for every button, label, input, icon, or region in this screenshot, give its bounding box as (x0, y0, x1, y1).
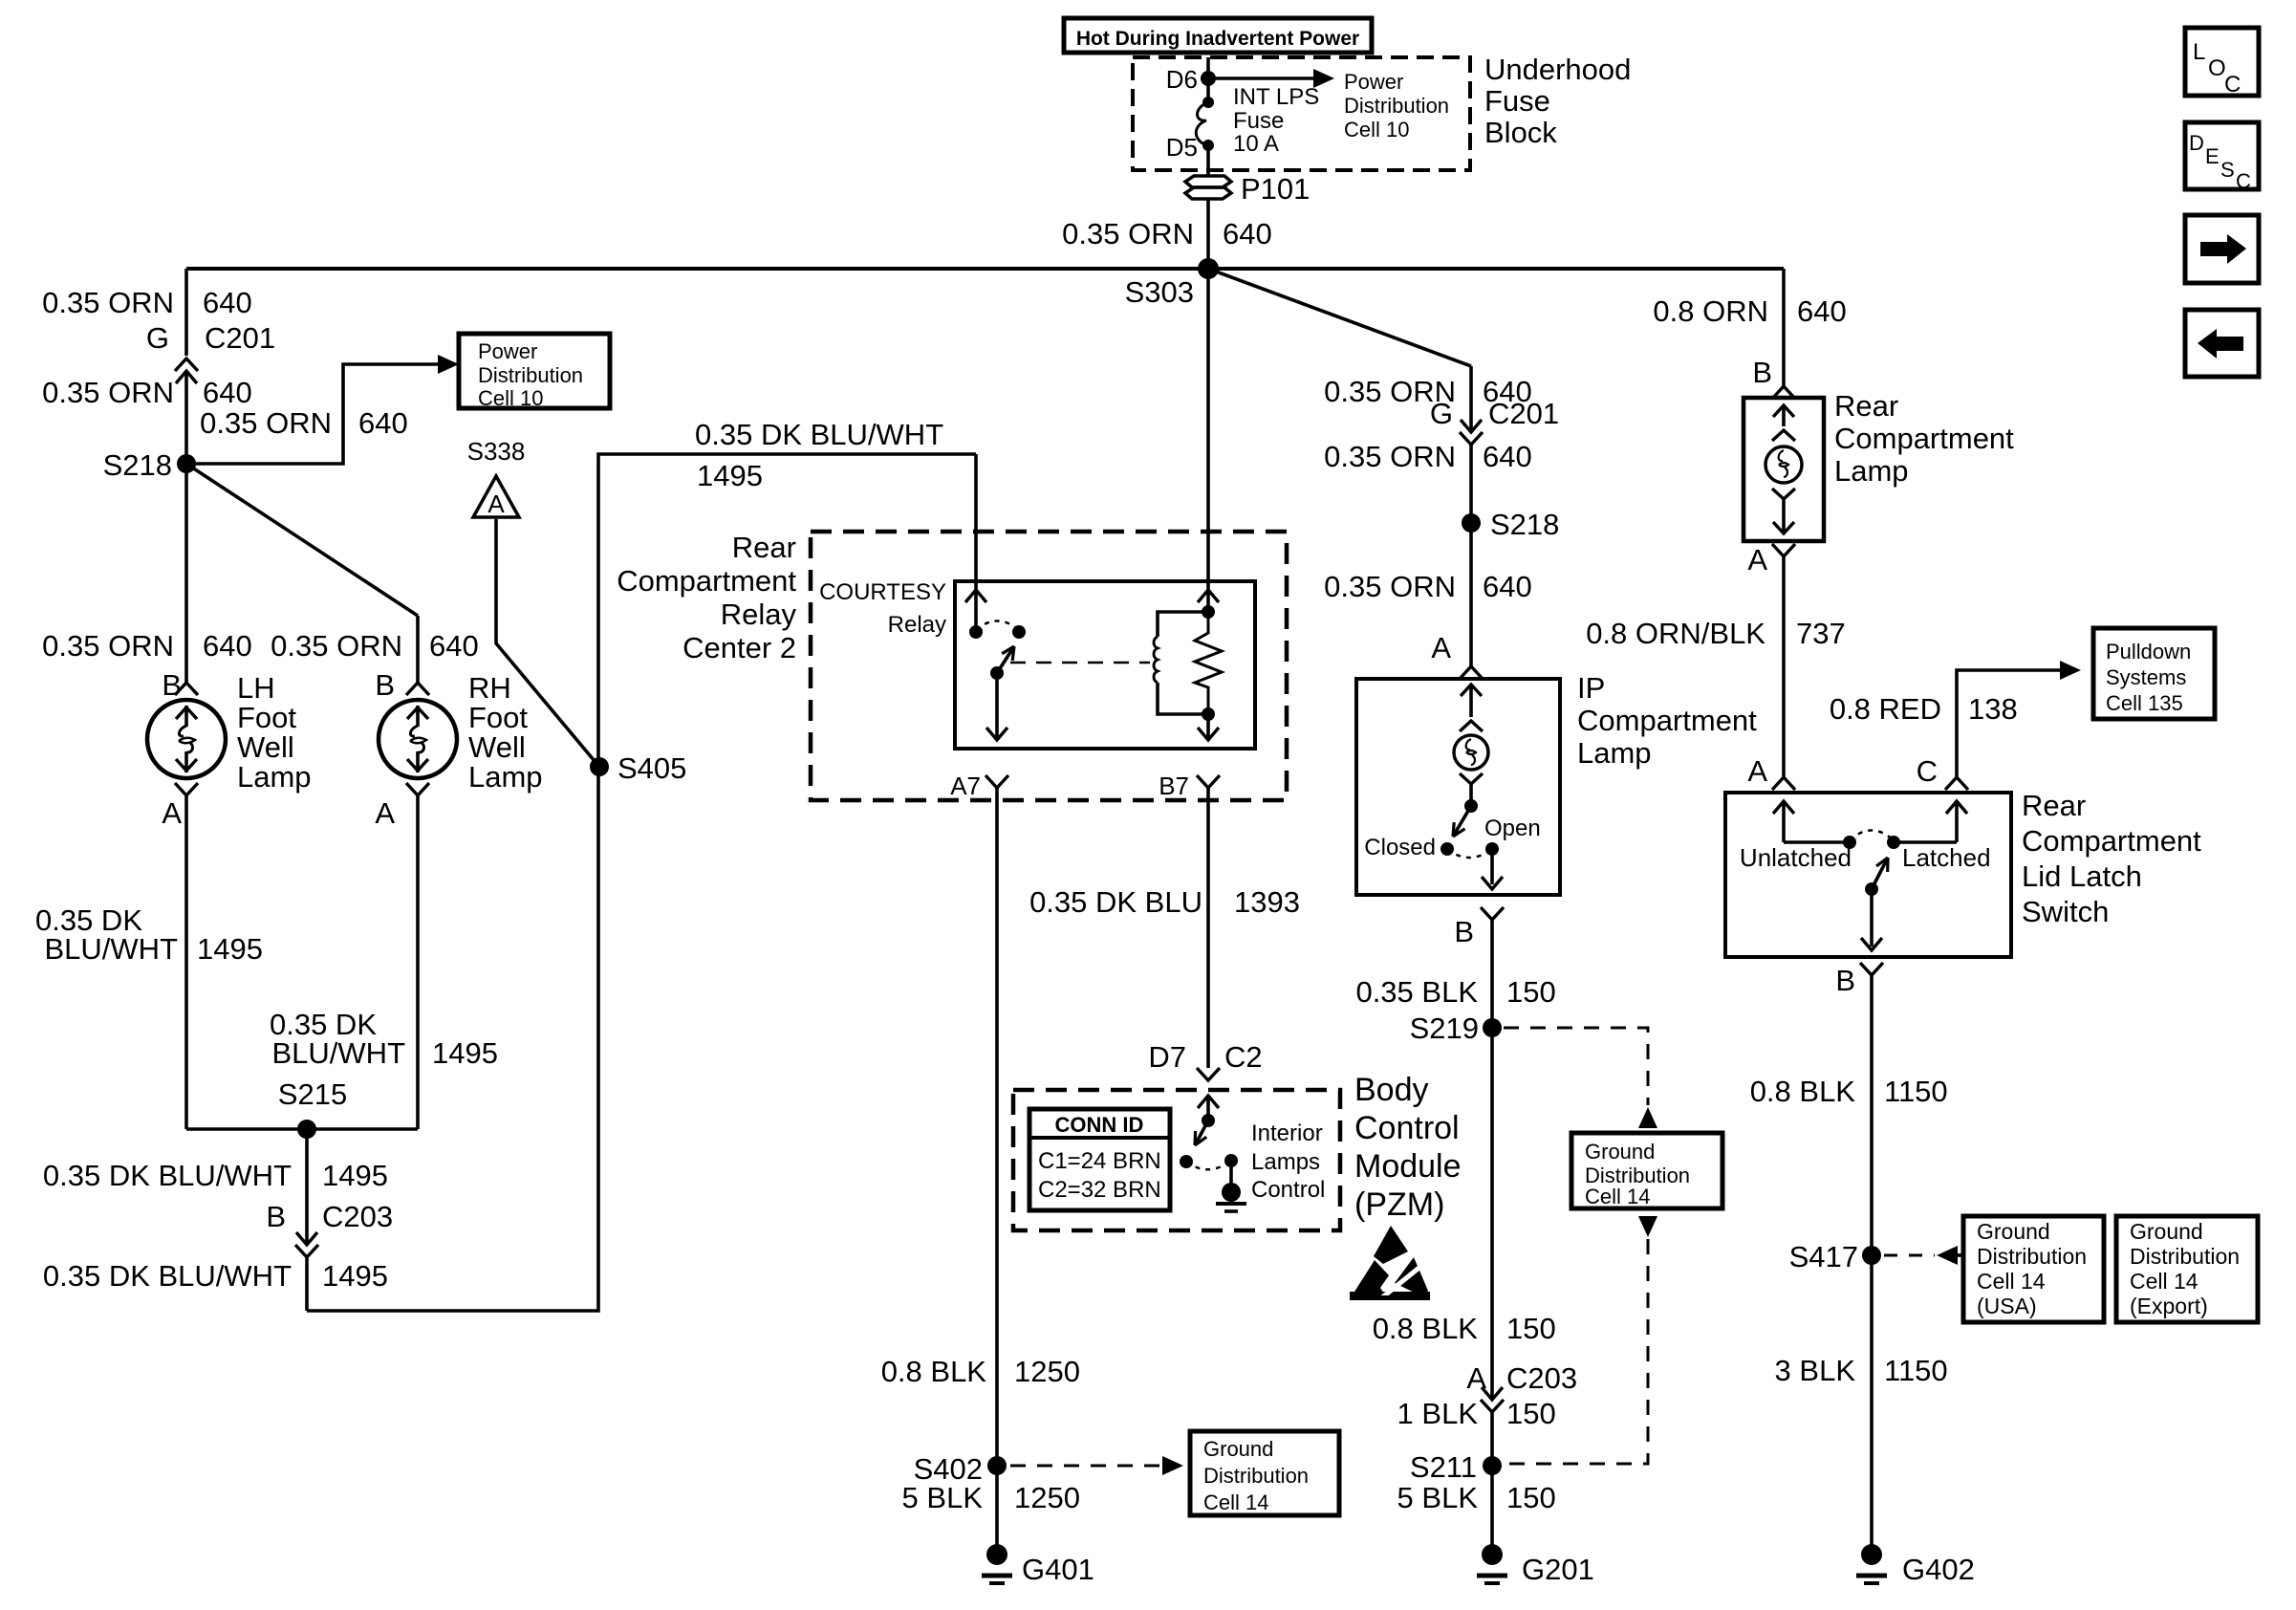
svg-text:Fuse: Fuse (1233, 108, 1284, 134)
svg-text:150: 150 (1506, 975, 1556, 1009)
svg-text:Center 2: Center 2 (682, 631, 796, 664)
svg-text:150: 150 (1506, 1397, 1556, 1430)
svg-text:INT LPS: INT LPS (1233, 84, 1319, 110)
svg-text:Closed: Closed (1364, 835, 1436, 860)
svg-text:Relay: Relay (888, 612, 946, 638)
svg-text:Cell 135: Cell 135 (2106, 691, 2183, 715)
svg-text:Cell 14: Cell 14 (1203, 1490, 1268, 1514)
svg-text:Lamps: Lamps (1251, 1149, 1320, 1175)
svg-text:A: A (1747, 543, 1767, 577)
svg-text:Compartment: Compartment (1577, 704, 1757, 737)
svg-text:Foot: Foot (468, 701, 528, 734)
svg-text:RH: RH (468, 671, 511, 705)
svg-text:A: A (487, 490, 505, 518)
svg-text:Compartment: Compartment (2022, 824, 2201, 858)
svg-text:0.8 BLK: 0.8 BLK (1373, 1312, 1479, 1345)
svg-text:Distribution: Distribution (478, 363, 583, 387)
svg-text:B7: B7 (1159, 772, 1189, 800)
svg-text:Cell 14: Cell 14 (2130, 1269, 2199, 1294)
svg-text:0.35 ORN: 0.35 ORN (42, 286, 174, 319)
svg-text:S218: S218 (1490, 508, 1559, 541)
svg-text:C: C (1917, 754, 1938, 788)
svg-text:S211: S211 (1410, 1450, 1477, 1484)
svg-text:C203: C203 (1506, 1361, 1577, 1395)
svg-text:Rear: Rear (2022, 789, 2086, 822)
svg-text:640: 640 (203, 286, 252, 319)
svg-text:Power: Power (1344, 70, 1403, 94)
svg-text:0.35 BLK: 0.35 BLK (1355, 975, 1478, 1009)
svg-text:IP: IP (1577, 671, 1605, 705)
svg-text:0.8 ORN/BLK: 0.8 ORN/BLK (1586, 617, 1765, 650)
svg-text:0.8 ORN: 0.8 ORN (1653, 294, 1768, 328)
svg-text:Distribution: Distribution (1344, 94, 1449, 118)
svg-text:Power: Power (478, 339, 537, 363)
svg-text:Pulldown: Pulldown (2106, 640, 2191, 664)
svg-text:Control: Control (1354, 1110, 1460, 1146)
svg-text:Underhood: Underhood (1484, 53, 1631, 86)
svg-text:O: O (2208, 55, 2226, 81)
svg-text:S218: S218 (103, 448, 172, 482)
svg-text:0.8 BLK: 0.8 BLK (1750, 1075, 1856, 1108)
svg-text:CONN ID: CONN ID (1055, 1113, 1144, 1137)
svg-text:1495: 1495 (432, 1036, 498, 1070)
svg-text:640: 640 (358, 406, 408, 440)
svg-text:Compartment: Compartment (1834, 422, 2014, 455)
svg-text:G201: G201 (1522, 1553, 1594, 1586)
svg-text:Distribution: Distribution (2130, 1244, 2240, 1269)
svg-text:1495: 1495 (697, 459, 763, 492)
svg-text:B: B (375, 668, 395, 702)
svg-text:LH: LH (237, 671, 275, 705)
svg-text:1495: 1495 (322, 1159, 388, 1192)
svg-text:A7: A7 (950, 772, 981, 800)
svg-text:C201: C201 (1488, 397, 1559, 430)
svg-text:B: B (1752, 356, 1772, 389)
svg-text:Cell 14: Cell 14 (1585, 1185, 1650, 1208)
svg-text:0.35 ORN: 0.35 ORN (42, 629, 174, 663)
svg-text:Distribution: Distribution (1203, 1464, 1309, 1488)
svg-text:Systems: Systems (2106, 665, 2186, 689)
svg-text:COURTESY: COURTESY (819, 579, 946, 605)
svg-text:0.8 BLK: 0.8 BLK (881, 1355, 987, 1388)
svg-text:C: C (2236, 169, 2251, 193)
svg-text:0.8 RED: 0.8 RED (1830, 692, 1941, 726)
svg-text:A: A (375, 796, 395, 830)
svg-text:Cell 10: Cell 10 (478, 386, 543, 410)
svg-text:737: 737 (1796, 617, 1846, 650)
svg-text:Latched: Latched (1902, 843, 1991, 872)
svg-text:S303: S303 (1125, 275, 1194, 309)
svg-text:Control: Control (1251, 1177, 1325, 1203)
svg-text:0.35 ORN: 0.35 ORN (271, 629, 402, 663)
svg-text:640: 640 (1483, 570, 1532, 603)
svg-text:0.35 ORN: 0.35 ORN (42, 376, 174, 409)
svg-text:S219: S219 (1410, 1012, 1479, 1045)
svg-text:Rear: Rear (1834, 389, 1898, 423)
svg-text:C: C (2224, 72, 2241, 98)
svg-text:C2=32 BRN: C2=32 BRN (1038, 1177, 1161, 1203)
svg-text:Ground: Ground (1203, 1437, 1273, 1461)
svg-text:640: 640 (1223, 217, 1272, 250)
svg-text:Body: Body (1354, 1072, 1429, 1108)
svg-text:Compartment: Compartment (617, 564, 796, 598)
svg-text:5 BLK: 5 BLK (902, 1481, 984, 1514)
svg-text:0.35 ORN: 0.35 ORN (1062, 217, 1194, 250)
svg-text:G401: G401 (1022, 1553, 1094, 1586)
svg-text:(PZM): (PZM) (1354, 1186, 1444, 1223)
svg-text:S338: S338 (467, 437, 526, 466)
svg-text:Cell 10: Cell 10 (1344, 118, 1409, 141)
svg-text:Unlatched: Unlatched (1740, 843, 1852, 872)
svg-text:Foot: Foot (237, 701, 296, 734)
svg-text:Lamp: Lamp (237, 760, 312, 794)
svg-text:C2: C2 (1224, 1040, 1263, 1074)
svg-text:5 BLK: 5 BLK (1397, 1481, 1479, 1514)
svg-text:1393: 1393 (1234, 885, 1300, 919)
svg-text:E: E (2205, 144, 2220, 168)
svg-text:Hot During Inadvertent Power: Hot During Inadvertent Power (1076, 28, 1359, 50)
svg-text:B: B (266, 1200, 286, 1233)
svg-text:640: 640 (1797, 294, 1847, 328)
svg-text:B: B (162, 668, 182, 702)
svg-text:(USA): (USA) (1977, 1294, 2037, 1318)
svg-text:D5: D5 (1166, 133, 1198, 162)
svg-text:Well: Well (468, 730, 526, 764)
svg-text:0.35 DK BLU/WHT: 0.35 DK BLU/WHT (43, 1259, 292, 1293)
svg-text:1495: 1495 (197, 932, 263, 966)
svg-text:1150: 1150 (1884, 1354, 1948, 1387)
svg-text:Lamp: Lamp (468, 760, 543, 794)
svg-text:Fuse: Fuse (1484, 84, 1550, 118)
svg-text:C203: C203 (322, 1200, 393, 1233)
svg-text:0.35 ORN: 0.35 ORN (200, 406, 332, 440)
svg-text:Relay: Relay (721, 598, 797, 631)
svg-text:1 BLK: 1 BLK (1397, 1397, 1479, 1430)
svg-text:138: 138 (1968, 692, 2018, 726)
svg-text:0.35 DK BLU/WHT: 0.35 DK BLU/WHT (43, 1159, 292, 1192)
svg-text:Switch: Switch (2022, 895, 2109, 928)
svg-text:BLU/WHT: BLU/WHT (272, 1036, 406, 1070)
svg-text:BLU/WHT: BLU/WHT (45, 932, 179, 966)
svg-text:Open: Open (1484, 816, 1541, 841)
svg-text:Well: Well (237, 730, 294, 764)
svg-text:Lid Latch: Lid Latch (2022, 859, 2142, 893)
svg-text:640: 640 (429, 629, 479, 663)
svg-text:Interior: Interior (1251, 1120, 1323, 1146)
svg-text:G: G (146, 321, 169, 355)
svg-text:150: 150 (1506, 1312, 1556, 1345)
svg-text:B: B (1835, 964, 1855, 997)
svg-text:1250: 1250 (1014, 1481, 1080, 1514)
svg-text:D6: D6 (1166, 65, 1198, 94)
svg-text:640: 640 (203, 376, 252, 409)
svg-text:Block: Block (1484, 116, 1557, 149)
svg-text:A: A (1747, 754, 1767, 788)
svg-text:0.35 DK BLU: 0.35 DK BLU (1029, 885, 1202, 919)
svg-text:150: 150 (1506, 1481, 1556, 1514)
svg-text:A: A (162, 796, 182, 830)
svg-text:G402: G402 (1902, 1553, 1975, 1586)
svg-text:S215: S215 (278, 1077, 347, 1111)
svg-text:Rear: Rear (732, 531, 796, 564)
svg-text:Ground: Ground (2130, 1219, 2203, 1244)
svg-text:0.35 ORN: 0.35 ORN (1324, 440, 1456, 473)
svg-text:640: 640 (1483, 440, 1532, 473)
svg-text:S: S (2220, 158, 2235, 182)
svg-text:L: L (2193, 39, 2205, 65)
svg-text:0.35 ORN: 0.35 ORN (1324, 570, 1456, 603)
svg-text:1150: 1150 (1884, 1075, 1948, 1108)
svg-text:Lamp: Lamp (1577, 736, 1652, 770)
svg-text:Lamp: Lamp (1834, 454, 1909, 488)
svg-text:640: 640 (203, 629, 252, 663)
svg-text:G: G (1430, 397, 1453, 430)
svg-text:10 A: 10 A (1233, 131, 1279, 157)
svg-text:B: B (1454, 915, 1474, 948)
svg-text:1495: 1495 (322, 1259, 388, 1293)
svg-text:A: A (1431, 631, 1451, 664)
svg-text:Module: Module (1354, 1148, 1462, 1185)
svg-text:S405: S405 (617, 751, 686, 785)
svg-text:0.35 DK BLU/WHT: 0.35 DK BLU/WHT (695, 418, 943, 451)
svg-text:D: D (2189, 131, 2204, 155)
svg-text:C201: C201 (205, 321, 275, 355)
svg-text:Ground: Ground (1585, 1140, 1655, 1164)
svg-text:Cell 14: Cell 14 (1977, 1269, 2046, 1294)
svg-text:(Export): (Export) (2130, 1294, 2208, 1318)
svg-text:P101: P101 (1241, 172, 1310, 206)
svg-text:3 BLK: 3 BLK (1775, 1354, 1856, 1387)
svg-text:1250: 1250 (1014, 1355, 1080, 1388)
svg-text:C1=24 BRN: C1=24 BRN (1038, 1148, 1161, 1174)
svg-text:S417: S417 (1789, 1240, 1858, 1273)
svg-text:Distribution: Distribution (1977, 1244, 2087, 1269)
svg-text:D7: D7 (1148, 1040, 1186, 1074)
svg-text:Ground: Ground (1977, 1219, 2050, 1244)
